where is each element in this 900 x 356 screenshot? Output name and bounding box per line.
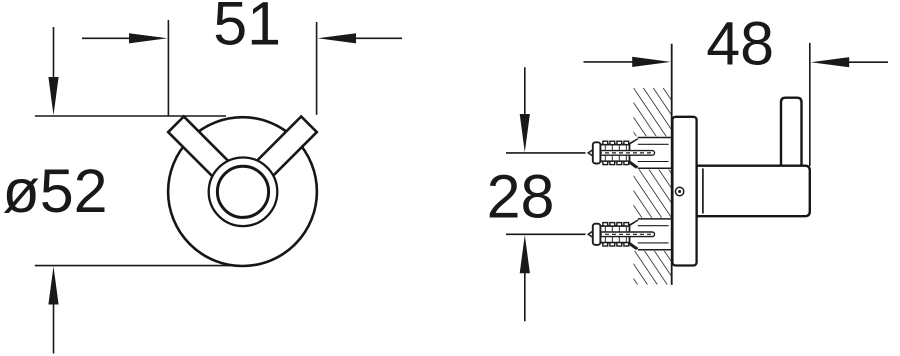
right hook prong [245, 117, 317, 189]
dim 48 arrow line right [849, 61, 888, 63]
dim o52 arrow shaft bottom [53, 304, 55, 354]
left hook prong [168, 117, 240, 189]
dim 28 extension line bottom [506, 233, 586, 235]
dim 28 arrow shaft bottom [524, 273, 526, 322]
dim o52 arrowhead bottom [48, 266, 58, 304]
hub outer circle [209, 158, 278, 227]
dim 51 arrow line left [82, 37, 131, 39]
dim 51 arrowhead right [318, 33, 356, 43]
dim 51 extension line left [167, 20, 169, 116]
rosette big circle [168, 117, 317, 266]
dim 51 extension line right [316, 22, 318, 115]
hook arm (horizontal) [697, 166, 810, 217]
dim 28 arrow shaft top [524, 67, 526, 116]
dim o52 arrow shaft top [53, 27, 55, 79]
neck taper line [702, 168, 704, 213]
wall face line (also 48 left extension) [671, 44, 673, 285]
svg-text:51: 51 [213, 0, 281, 58]
hook post (vertical peg) [781, 98, 802, 170]
svg-text:28: 28 [487, 163, 555, 231]
dim 48 arrowhead left [632, 57, 671, 67]
dim 28 arrowhead top [520, 114, 530, 152]
dim 51 arrow line right [355, 37, 402, 39]
svg-text:ø52: ø52 [3, 157, 108, 225]
flange screw head [675, 187, 683, 195]
dim 28 arrowhead bottom [520, 235, 530, 273]
dim 28 extension line top [506, 152, 586, 154]
flange screw head dot [678, 190, 681, 193]
dim 48 extension line right [809, 43, 811, 166]
hub inner circle [217, 166, 268, 217]
top screw and anchor [586, 136, 671, 169]
dim o52 extension line bottom [35, 265, 247, 267]
wall hatching [634, 88, 672, 285]
svg-text:48: 48 [706, 10, 774, 78]
dim o52 arrowhead top [48, 77, 58, 115]
dim 48 arrow line left [584, 61, 634, 63]
dim 51 arrowhead left [129, 33, 167, 43]
wall flange plate [672, 117, 696, 266]
bottom screw and anchor [586, 218, 671, 251]
dim 48 arrowhead right [811, 57, 849, 67]
dim o52 extension line top [35, 115, 226, 117]
